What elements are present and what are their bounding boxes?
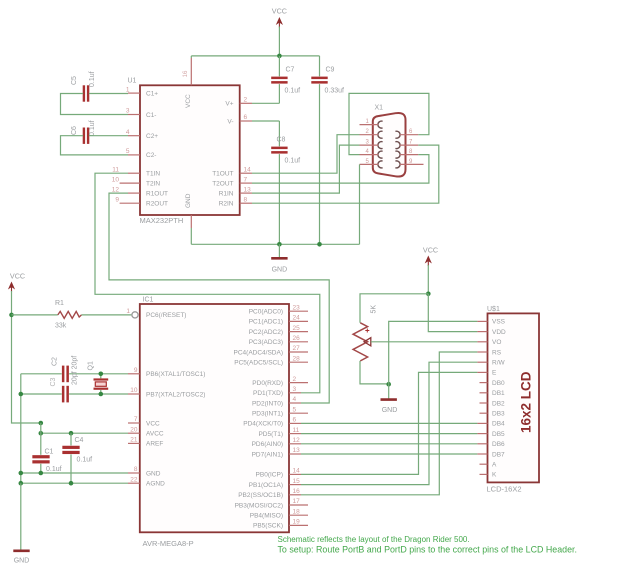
MAX232 pin 7 T2OUT stub [240,182,252,184]
IC1 pin 24 stub [289,320,308,322]
IC1 pin 3 stub [289,392,301,394]
capacitor C1 [32,455,49,463]
svg-text:3: 3 [293,386,297,393]
IC1 pin 21 stub [128,442,140,444]
wire C9 down to GND rail [319,84,321,244]
svg-text:X1: X1 [375,105,384,112]
crystal Q1 [94,374,109,394]
svg-text:K: K [492,472,497,479]
svg-text:IC1: IC1 [143,297,154,304]
wire MAX232 GND pin to rail [191,228,359,244]
svg-text:R/W: R/W [492,360,506,367]
svg-text:5: 5 [293,406,297,413]
svg-text:21: 21 [130,437,138,444]
svg-text:T2OUT: T2OUT [212,180,233,187]
wire PB0 to LCD E [301,372,477,474]
resistor R1 33k [58,311,82,318]
X1 pin 3 contact [378,142,383,149]
power symbol VCC (top middle) [272,7,287,28]
capacitor C6 [83,128,90,144]
svg-text:DB0: DB0 [492,380,505,387]
svg-text:AGND: AGND [146,481,165,488]
svg-text:15: 15 [293,478,301,485]
connector X1 DB9 shell [373,113,406,177]
svg-text:DB6: DB6 [492,441,505,448]
wire PB2 to LCD RS [301,352,477,495]
svg-text:C2: C2 [52,357,59,366]
wire GND row [21,472,128,474]
svg-text:PC3(ADC3): PC3(ADC3) [249,339,283,346]
svg-text:33k: 33k [55,323,67,330]
MAX232 pin 9 R2OUT stub [120,202,140,204]
MAX232 pin 3 C1- stub [128,114,140,116]
MAX232 pin 4 C2+ stub [128,135,140,137]
X1 pin 2 contact [378,131,383,138]
potentiometer 5K body [353,323,368,361]
svg-text:VDD: VDD [492,329,506,336]
svg-text:VCC: VCC [146,420,160,427]
svg-text:PD1(TXD): PD1(TXD) [253,390,283,397]
wire R1OUT to AVR PD2 [109,193,329,403]
IC1 pin 14 stub [289,473,301,475]
svg-text:24: 24 [293,315,301,322]
wire C5 to MAX pin1 [89,93,128,95]
svg-text:C1+: C1+ [146,90,158,97]
svg-text:16x2 LCD: 16x2 LCD [519,371,534,433]
svg-text:C4: C4 [75,437,84,444]
svg-text:AREF: AREF [146,441,163,448]
svg-text:PB5(SCK): PB5(SCK) [253,523,283,530]
junction dot AGND left [19,481,24,486]
svg-text:9: 9 [115,196,119,203]
junction dot VCC/C7 node [277,54,282,59]
svg-text:1: 1 [126,308,130,315]
capacitor C8 [271,147,287,154]
svg-text:13: 13 [293,447,301,454]
X1 pin 8 contact [395,151,400,158]
svg-text:5K: 5K [371,305,378,314]
wire T1OUT to X1 pin2 [252,135,360,174]
wire R1IN to X1 pin3 [252,145,360,193]
svg-text:14: 14 [244,166,252,173]
wire VCC down to junction [278,27,280,56]
svg-text:1: 1 [126,86,130,93]
IC1 pin 28 stub [289,361,308,363]
U$1 pin VO stub [477,341,487,343]
IC1 pin 15 stub [289,484,301,486]
svg-text:13: 13 [244,186,252,193]
wire PD7 to LCD DB7 [301,453,477,455]
svg-text:R1OUT: R1OUT [146,190,168,197]
svg-text:PB6(XTAL1/TOSC1): PB6(XTAL1/TOSC1) [146,371,205,378]
svg-text:PB4(MISO): PB4(MISO) [250,513,283,520]
X1 pin 6 stub [400,134,419,136]
IC1 pin 16 stub [289,494,301,496]
wire pot bottom to GND node [360,361,389,384]
wire node to LCD VDD [428,294,477,332]
wire R2IN to X1 pin7 [252,145,439,203]
wire V- (MAX pin6) to C8 [252,121,279,146]
wire R1 to RESET bubble [82,314,132,316]
wire C1 branch down [40,423,42,455]
svg-text:20pf 20pf: 20pf 20pf [72,356,79,385]
svg-text:PC5(ADC5/SCL): PC5(ADC5/SCL) [234,360,283,367]
svg-text:Q1: Q1 [88,361,95,370]
svg-text:DB2: DB2 [492,400,505,407]
svg-text:4: 4 [126,129,130,136]
MAX232 pin 8 R2IN stub [240,202,252,204]
pot wiper arrow [364,338,371,346]
svg-text:10: 10 [130,387,138,394]
svg-text:VCC: VCC [272,7,287,16]
svg-text:26: 26 [293,335,301,342]
MAX232 GND pin stub [190,215,192,228]
svg-text:PB3(MOSI/OC2): PB3(MOSI/OC2) [235,502,283,509]
svg-text:19: 19 [293,519,301,526]
svg-text:5: 5 [126,148,130,155]
svg-text:11: 11 [293,427,300,434]
svg-text:28: 28 [293,355,301,362]
svg-text:9: 9 [134,367,138,374]
wire C4 to AGND row [70,454,72,483]
svg-text:R1: R1 [55,300,64,307]
svg-text:0.1uf: 0.1uf [285,158,301,165]
svg-text:6: 6 [244,114,248,121]
U$1 pin DB7 stub [477,453,487,455]
X1 pin 1 contact [378,121,383,128]
svg-text:U$1: U$1 [487,306,500,313]
svg-text:14: 14 [293,468,301,475]
svg-text:0.1uf: 0.1uf [89,120,96,136]
IC1 pin 6 stub [289,422,301,424]
AVR pin1 inversion bubble [132,312,138,318]
svg-text:DB4: DB4 [492,421,505,428]
junction dot GND row at C1 [39,471,44,476]
svg-text:7: 7 [134,416,138,423]
U$1 pin RS stub [477,351,487,353]
svg-text:C2+: C2+ [146,133,158,140]
IC1 pin 17 stub [289,504,308,506]
X1 pin 7 contact [395,142,400,149]
wire C5 loop to MAX pin3 [61,94,129,115]
wire XTAL2 row [21,393,128,395]
wire VCC to R1 [12,314,58,316]
svg-text:0.1uf: 0.1uf [46,466,62,473]
svg-text:C2-: C2- [146,152,156,159]
wire crystal-cap common to GND rail [20,374,22,483]
svg-text:GND: GND [382,407,398,414]
X1 pin 9 contact [395,161,400,168]
svg-text:C5: C5 [71,76,78,85]
U$1 pin DB5 stub [477,433,487,435]
wire VCC rail left [12,291,41,423]
wire C1 to GND row [40,464,42,473]
svg-text:VCC: VCC [10,272,25,281]
svg-text:PD6(AIN0): PD6(AIN0) [252,441,283,448]
U$1 pin K stub [480,473,488,475]
capacitor C7 [271,77,287,84]
svg-text:AVCC: AVCC [146,431,164,438]
svg-text:C9: C9 [326,67,335,74]
junction dot VCC/pot node [426,292,431,297]
wire AVCC row [41,432,128,434]
X1 pin 9 stub [400,163,424,165]
svg-text:16: 16 [293,488,301,495]
X1 pin 8 stub [400,154,419,156]
svg-text:PB2(SS/OC1B): PB2(SS/OC1B) [238,492,283,499]
junction dot pot GND node [386,382,391,387]
IC1 pin 8 stub [128,472,140,474]
IC1 pin 26 stub [289,341,308,343]
IC1 pin 25 stub [289,331,308,333]
pot plus mark [365,329,369,333]
svg-text:VCC: VCC [185,94,192,108]
X1 pin 1 stub [360,124,379,126]
svg-text:22: 22 [130,476,138,483]
svg-text:PB1(OC1A): PB1(OC1A) [249,482,283,489]
MAX232 pin 12 R1OUT stub [128,192,140,194]
U$1 pin DB3 stub [480,412,488,414]
wire AGND row [21,482,128,484]
MAX232 pin 16 VCC stub [190,58,192,85]
IC1 pin 11 stub [289,433,301,435]
wire C4 branch down [70,433,72,445]
svg-text:T1IN: T1IN [146,171,160,178]
X1 pin 4 stub [360,154,379,156]
svg-text:4: 4 [293,396,297,403]
wire PD4 to LCD DB4 [301,422,477,424]
MAX232 pin 11 T1IN stub [128,172,140,174]
MAX232 pin 2 V+ stub [240,102,252,104]
svg-text:8: 8 [244,196,248,203]
wire X1 pin5 to GND rail [359,164,361,244]
wire VCC node to C9 [319,56,321,76]
svg-text:10: 10 [112,176,120,183]
svg-text:17: 17 [293,498,301,505]
wire PD6 to LCD DB6 [301,443,477,445]
IC1 pin 19 stub [289,524,308,526]
svg-text:A: A [492,462,497,469]
svg-text:Schematic reflects the layout: Schematic reflects the layout of the Dra… [278,535,470,544]
svg-text:T1OUT: T1OUT [212,171,233,178]
IC1 pin 27 stub [289,351,308,353]
svg-text:R2OUT: R2OUT [146,201,168,208]
IC1 pin 5 stub [289,412,308,414]
IC1 pin 23 stub [289,310,308,312]
U$1 pin A stub [480,463,488,465]
svg-text:To setup: Route PortB and Port: To setup: Route PortB and PortD pins to … [278,545,577,555]
svg-text:0.1uf: 0.1uf [285,88,301,95]
svg-text:PB7(XTAL2/TOSC2): PB7(XTAL2/TOSC2) [146,391,205,398]
svg-text:PB0(ICP): PB0(ICP) [256,472,283,479]
svg-text:DB1: DB1 [492,390,505,397]
svg-text:11: 11 [112,166,119,173]
wire VCC down to node [427,265,429,294]
svg-text:T2IN: T2IN [146,180,160,187]
svg-text:3: 3 [126,108,130,115]
wire C6 to MAX pin4 [89,135,128,137]
wire node to pot top [360,294,428,323]
svg-text:VO: VO [492,339,501,346]
U$1 pin VSS stub [477,320,487,322]
svg-text:LCD-16X2: LCD-16X2 [487,485,522,494]
svg-text:7: 7 [244,176,248,183]
wire XTAL1 row [21,373,128,375]
U$1 pin DB1 stub [480,392,488,394]
svg-text:PC1(ADC1): PC1(ADC1) [249,319,283,326]
junction dot GND rail at C8 [277,242,282,247]
svg-text:V-: V- [227,118,233,125]
MAX232 pin 1 C1+ stub [128,92,140,94]
svg-text:27: 27 [293,345,301,352]
X1 pin 5 contact [378,161,383,168]
svg-text:18: 18 [293,508,301,515]
IC1 pin 10 stub [128,393,140,395]
svg-text:U1: U1 [128,78,137,85]
svg-text:C8: C8 [277,137,286,144]
junction dot XTAL2/common [19,392,24,397]
svg-text:PC6(/RESET): PC6(/RESET) [146,312,186,319]
svg-text:12: 12 [293,437,301,444]
U$1 pin DB4 stub [477,422,487,424]
svg-text:C3: C3 [50,377,57,386]
U$1 pin DB6 stub [477,443,487,445]
power symbol VCC (right) [423,246,438,267]
svg-text:C1-: C1- [146,112,156,119]
svg-text:C7: C7 [286,67,295,74]
MAX232 pin 6 V- stub [240,120,252,122]
svg-text:20: 20 [130,426,138,433]
X1 pin 4 contact [378,151,383,158]
junction dot AGND at C4 [69,481,74,486]
wire C8 down to GND rail [278,154,280,244]
svg-text:PD2(INT0): PD2(INT0) [252,400,283,407]
X1 pin 6 contact [395,131,400,138]
U$1 pin VDD stub [477,331,487,333]
svg-text:R2IN: R2IN [219,201,234,208]
MAX232 pin 10 T2IN stub [120,182,140,184]
capacitor C9 [311,77,327,84]
op-amp U1 MAX232 box [140,85,240,215]
U$1 pin E stub [477,371,487,373]
X1 pin 3 stub [360,144,379,146]
junction dot GND row left [19,471,24,476]
capacitor C4 [62,446,79,454]
MAX232 pin 14 T1OUT stub [240,172,252,174]
wire C7 to V+ (MAX pin2) [252,84,279,103]
svg-text:PD7(AIN1): PD7(AIN1) [252,451,283,458]
svg-text:2: 2 [244,97,248,104]
connector U$1 16x2 LCD box [488,313,540,482]
junction dot R1/VCC [9,313,14,318]
wire GND rail to bottom symbol [20,483,22,550]
junction dot AVCC at C4 [69,431,74,436]
IC1 pin 18 stub [289,514,308,516]
svg-text:PC2(ADC2): PC2(ADC2) [249,329,283,336]
svg-text:0.1uf: 0.1uf [89,71,96,87]
U$1 pin DB0 stub [480,382,488,384]
wire C6 loop to MAX pin5 [61,136,129,155]
wire wiper to LCD VO [371,341,478,343]
svg-text:AVR-MEGA8-P: AVR-MEGA8-P [143,539,194,548]
IC1 pin 9 stub [128,373,140,375]
IC1 pin 12 stub [289,443,301,445]
svg-text:DB7: DB7 [492,451,505,458]
svg-text:VCC: VCC [423,246,438,255]
svg-text:PC0(ADC0): PC0(ADC0) [249,309,283,316]
svg-text:25: 25 [293,325,301,332]
IC1 pin 7 stub [128,422,140,424]
IC1 pin 22 stub [128,482,140,484]
svg-text:PD0(RXD): PD0(RXD) [252,380,283,387]
capacitor C2 [62,366,69,383]
svg-text:23: 23 [293,304,301,311]
svg-text:0.33uf: 0.33uf [325,88,345,95]
U$1 pin DB2 stub [480,402,488,404]
X1 pin 2 stub [360,134,379,136]
wire VCC node down to C7 [278,56,280,76]
svg-text:GND: GND [185,193,192,208]
svg-text:R1IN: R1IN [219,190,234,197]
svg-text:C1: C1 [45,449,54,456]
svg-text:DB5: DB5 [492,431,505,438]
junction dot AVCC at C1 branch [39,431,44,436]
wire X1 pin4 to pin6 jumper [349,93,429,154]
ground symbol (middle) [271,244,287,273]
svg-text:12: 12 [112,186,120,193]
wire T2OUT to X1 pin8 [252,155,429,184]
IC1 pin 20 stub [128,432,140,434]
svg-text:VSS: VSS [492,319,506,326]
svg-text:C6: C6 [71,126,78,135]
ground symbol (bottom left) [13,551,29,565]
ground symbol (pot) [381,384,398,414]
svg-text:8: 8 [134,466,138,473]
IC1 pin 13 stub [289,453,301,455]
svg-text:V+: V+ [225,101,233,108]
svg-text:PD5(T1): PD5(T1) [258,431,283,438]
wire PB1 to LCD R/W [301,362,477,484]
svg-text:GND: GND [272,267,288,274]
MAX232 pin 5 C2- stub [128,154,140,156]
svg-text:PC4(ADC4/SDA): PC4(ADC4/SDA) [234,349,283,356]
svg-text:16: 16 [183,70,189,77]
wire PD5 to LCD DB5 [301,433,477,435]
wire GND node up to LCD VSS [389,321,478,384]
svg-text:6: 6 [293,417,297,424]
U$1 pin R/W stub [477,361,487,363]
svg-text:GND: GND [146,470,161,477]
microcontroller IC1 AVR-MEGA8 box [140,304,289,532]
svg-text:2: 2 [293,376,297,383]
capacitor C3 [62,386,69,403]
svg-text:E: E [492,370,497,377]
wire MAX232 pin16 to VCC net [191,56,319,58]
svg-text:PD4(XCK/T0): PD4(XCK/T0) [243,421,283,428]
junction dot crystal bottom [99,392,104,397]
MAX232 pin 13 R1IN stub [240,192,252,194]
svg-text:PD3(INT1): PD3(INT1) [252,411,283,418]
IC1 pin 4 stub [289,402,301,404]
svg-text:MAX232PTH: MAX232PTH [140,216,184,225]
svg-text:GND: GND [14,558,30,565]
X1 pin 7 stub [400,144,419,146]
junction dot GND rail at C9 [317,242,322,247]
svg-text:DB3: DB3 [492,411,505,418]
svg-text:RS: RS [492,349,502,356]
junction dot crystal top [99,372,104,377]
capacitor C5 [83,85,90,101]
